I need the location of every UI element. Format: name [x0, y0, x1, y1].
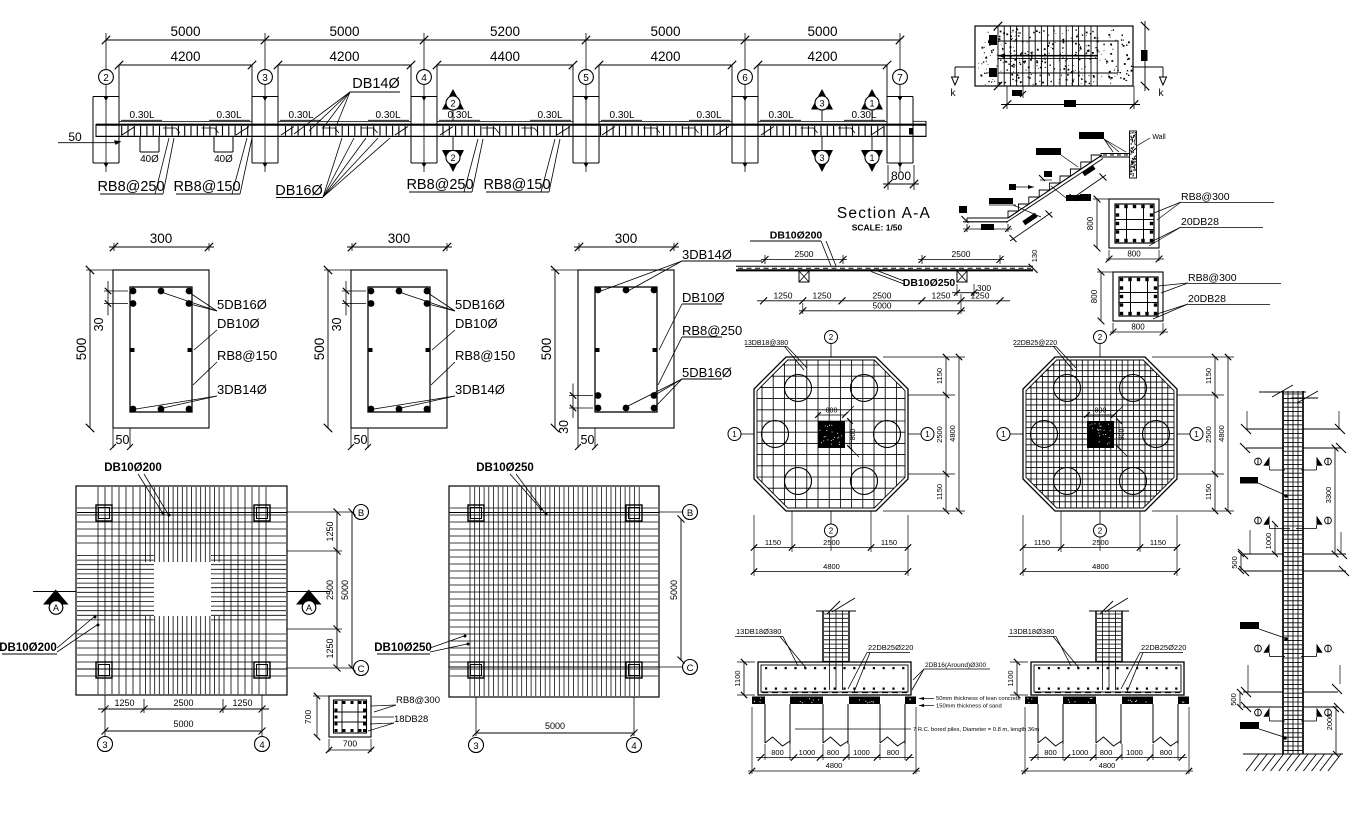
svg-text:RB8@250: RB8@250 — [97, 179, 164, 195]
svg-text:DB14Ø: DB14Ø — [352, 76, 400, 92]
svg-text:300: 300 — [150, 231, 173, 246]
octagonal pile cap 13DB18@380: bottom dimension 1150/2500/1150 — [751, 511, 911, 576]
stair section: top landing slab with rebar dashes — [1096, 154, 1130, 158]
octagonal pile cap 22DB25@220: column 800 dimensions — [1084, 406, 1128, 457]
stair plan: right dimension line — [1141, 21, 1149, 91]
octagonal pile cap 13DB18@380: pile circles — [762, 375, 901, 495]
svg-text:1100: 1100 — [733, 670, 742, 686]
octagonal pile cap 13DB18@380: inner octagon outline — [757, 360, 905, 508]
svg-text:B: B — [687, 508, 693, 519]
column elevation: level 3 beam stubs — [1241, 665, 1344, 713]
column section 700: 700 bottom dimension — [326, 739, 374, 754]
svg-text:800: 800 — [1131, 323, 1145, 332]
svg-text:DB10Ø250: DB10Ø250 — [476, 462, 534, 474]
svg-text:800: 800 — [1090, 289, 1099, 303]
svg-text:RB8@250: RB8@250 — [406, 177, 473, 193]
stair plan: k-k section line left — [951, 67, 976, 99]
svg-text:2: 2 — [1098, 527, 1103, 536]
svg-text:1: 1 — [869, 153, 874, 163]
stair section: wall with hatch — [1130, 131, 1167, 178]
svg-text:50: 50 — [354, 433, 368, 447]
octagonal pile cap 22DB25@220: grid bubble 1 left — [997, 428, 1023, 441]
svg-text:2500: 2500 — [952, 249, 971, 259]
svg-text:DB10Ø: DB10Ø — [217, 316, 260, 331]
pile cap section left: label 2DB16(Around)@300 — [912, 662, 990, 690]
octagonal pile cap 13DB18@380: outer octagon outline — [754, 357, 908, 511]
pile cap section right: bored piles with break marks — [1038, 704, 1178, 746]
svg-text:300: 300 — [615, 231, 638, 246]
stair plan: flight edge lines and landing boundary — [994, 22, 1118, 90]
svg-text:4800: 4800 — [1099, 761, 1116, 770]
column elevation: ground line with hatch — [1243, 754, 1343, 771]
svg-text:1000: 1000 — [799, 748, 816, 757]
octagonal pile cap 13DB18@380: grid bubble 1 left — [728, 428, 754, 441]
svg-text:SCALE: 1/50: SCALE: 1/50 — [852, 223, 903, 233]
column elevation: lower lap flags — [1255, 708, 1332, 721]
svg-text:1150: 1150 — [765, 538, 781, 547]
beam section 3: 30 bar spacing dimension — [557, 384, 593, 434]
octagonal pile cap 22DB25@220: inner octagon outline — [1026, 360, 1174, 508]
svg-text:4: 4 — [259, 740, 264, 751]
beam section 1: label DB10Ø — [194, 316, 260, 350]
svg-text:2500: 2500 — [795, 249, 814, 259]
beam section 3: 300 width dimension — [574, 231, 679, 251]
svg-text:5DB16Ø: 5DB16Ø — [682, 365, 732, 380]
svg-text:1000: 1000 — [1264, 533, 1273, 550]
column elevation: 500 dimension level 2 — [1230, 551, 1244, 574]
stair section: bottom landing slab — [959, 206, 1008, 223]
pile cap section right: 1100 left dimension — [1006, 659, 1028, 698]
svg-text:4800: 4800 — [948, 425, 957, 442]
svg-text:1: 1 — [732, 430, 737, 439]
svg-text:1: 1 — [1194, 430, 1199, 439]
beam section 2: 30 bar spacing dimension — [330, 281, 366, 331]
svg-text:800: 800 — [891, 169, 911, 183]
svg-text:0.30L: 0.30L — [375, 110, 400, 121]
pile cap section right: lean concrete / sand strip — [1025, 697, 1189, 705]
section A-A: 300 dimension at right x-box — [952, 283, 991, 296]
column elevation: 3300 dimension — [1324, 445, 1338, 558]
pile cap section left: label 22DB25@220 — [848, 643, 913, 692]
svg-text:1150: 1150 — [881, 538, 897, 547]
pile cap section right: label 22DB25@220 — [1121, 643, 1186, 692]
svg-text:RB8@150: RB8@150 — [455, 348, 515, 363]
footing plan 1: outer outline — [76, 486, 287, 695]
octagonal pile cap 22DB25@220: column black square — [1087, 421, 1114, 448]
column section 800 lower: label RB8@300 — [1158, 272, 1281, 293]
stray annotation blob left of upper column section — [1080, 194, 1091, 201]
footing plan 1: section arrow A left — [33, 590, 76, 615]
section A-A: label DB10@200 with leader — [750, 230, 836, 267]
svg-text:Section A-A: Section A-A — [837, 205, 931, 222]
beam section 2: 500 height dimension — [312, 266, 353, 432]
pile cap section left: cap rebar dots — [765, 667, 904, 690]
svg-text:5200: 5200 — [490, 24, 520, 39]
beam elevation: label RB8@250 first span — [97, 138, 174, 195]
svg-text:3: 3 — [819, 153, 824, 163]
svg-text:22DB25Ø220: 22DB25Ø220 — [868, 643, 913, 652]
svg-text:800: 800 — [827, 748, 840, 757]
octagonal pile cap 22DB25@220: grid bubble 2 top — [1094, 331, 1107, 358]
stair plan: outer slab outline — [975, 26, 1133, 86]
column elevation: main column with rebar ladder — [1283, 391, 1303, 754]
svg-text:1: 1 — [1001, 430, 1006, 439]
stair plan: k-k section line right — [1133, 67, 1167, 99]
column elevation: level 2 beam stubs — [1238, 530, 1349, 576]
svg-text:1250: 1250 — [813, 291, 832, 301]
column section 700: 700 left dimension — [303, 693, 331, 740]
svg-text:0.30L: 0.30L — [129, 110, 154, 121]
octagonal pile cap 22DB25@220: grid bubble 1 right — [1177, 428, 1203, 441]
svg-text:1250: 1250 — [971, 291, 990, 301]
section A-A: top dimension 2500 right — [918, 249, 1004, 264]
svg-text:4200: 4200 — [650, 49, 680, 64]
stair section: bottom landing dimension — [963, 224, 1012, 232]
svg-text:13DB18Ø380: 13DB18Ø380 — [1009, 627, 1054, 636]
svg-text:DB10Ø250: DB10Ø250 — [374, 642, 432, 654]
footing plan 1: grid bubble 3 — [98, 737, 113, 752]
column section 700: label 18DB28 — [368, 714, 428, 731]
svg-text:0.30L: 0.30L — [216, 110, 241, 121]
svg-text:4200: 4200 — [807, 49, 837, 64]
column section 800 upper: outline — [1109, 199, 1159, 248]
svg-text:A: A — [306, 603, 312, 613]
svg-text:130: 130 — [1030, 250, 1039, 263]
pile cap section left: cap outline — [758, 662, 911, 695]
octagonal pile cap 22DB25@220: pile circles — [1031, 375, 1170, 495]
column elevation: level 1 beam stubs — [1240, 411, 1346, 453]
svg-text:DB10Ø: DB10Ø — [682, 290, 725, 305]
svg-text:1000: 1000 — [853, 748, 870, 757]
pile cap section left: lean concrete / sand strip — [752, 697, 916, 705]
pile cap section left: bottom dimensions 800/1000/800/1000/800 — [756, 744, 914, 761]
svg-text:30: 30 — [92, 317, 106, 331]
beam section 1: 30 bar spacing dimension — [92, 281, 128, 331]
stair plan: concrete speckle texture — [978, 29, 1132, 85]
svg-text:50: 50 — [68, 130, 82, 144]
svg-text:700: 700 — [343, 739, 357, 749]
svg-text:0.30L: 0.30L — [609, 110, 634, 121]
pile cap section right: bottom dimension 4800 — [1021, 707, 1193, 774]
beam section 3: label DB10Ø — [659, 290, 725, 350]
pile cap section left: bored piles with break marks — [765, 704, 905, 746]
svg-text:1100: 1100 — [1006, 670, 1015, 686]
footing plan 1: vertical rebar lines outer zones — [98, 487, 266, 694]
svg-text:1: 1 — [869, 99, 874, 109]
beam elevation: label RB8@150 fourth span — [483, 139, 560, 193]
footing plan 1: grid bubble 4 — [255, 737, 270, 752]
svg-text:3: 3 — [473, 741, 478, 752]
octagonal pile cap 13DB18@380: rebar grid — [754, 357, 908, 511]
footing plan 2: label DB10@250 left with leaders — [374, 635, 469, 655]
beam section 3: label 3DB14Ø — [601, 247, 762, 291]
beam elevation: top-bar splice hook marks at midspans — [163, 128, 855, 133]
svg-text:C: C — [358, 664, 365, 675]
footing plan 1: bottom dimension 5000 — [102, 719, 266, 735]
stair plan: small black annotation blobs — [989, 35, 997, 45]
footing plan 2: horizontal rebar lines — [450, 508, 658, 676]
section A-A: left beam x-box — [799, 271, 809, 282]
svg-text:3DB14Ø: 3DB14Ø — [217, 382, 267, 397]
svg-text:20DB28: 20DB28 — [1181, 216, 1219, 228]
beam elevation: 50 offset annotation at left end — [58, 130, 122, 145]
octagonal pile cap 22DB25@220: rebar grid — [1023, 357, 1177, 511]
svg-text:40Ø: 40Ø — [140, 154, 159, 165]
pile cap section right: dashed bottom rebar line — [1035, 691, 1180, 693]
beam section 3: longitudinal bars — [595, 287, 658, 412]
svg-text:DB10Ø200: DB10Ø200 — [770, 230, 823, 242]
beam elevation: top dimension line 5000/5200 row — [102, 24, 904, 47]
svg-text:4800: 4800 — [823, 562, 840, 571]
svg-text:1000: 1000 — [1126, 748, 1143, 757]
svg-text:DB10Ø200: DB10Ø200 — [104, 462, 162, 474]
svg-text:50mm thickness of lean concret: 50mm thickness of lean concrete — [936, 696, 1021, 702]
octagonal pile cap 13DB18@380: bottom dimension 4800 — [751, 562, 911, 575]
stair section: flight soffit double line — [1006, 155, 1103, 223]
beam section 3: stirrup — [595, 287, 657, 412]
svg-text:2500: 2500 — [873, 291, 892, 301]
column section 800 upper: 800 bottom dimension — [1106, 250, 1164, 263]
svg-text:5000: 5000 — [329, 24, 359, 39]
svg-text:0.30L: 0.30L — [696, 110, 721, 121]
section A-A: top dimension 2500 left — [761, 249, 847, 264]
octagonal pile cap 22DB25@220: right dimension 1150/2500/1150 — [1152, 354, 1234, 514]
beam section 2: label 5DB16Ø — [399, 292, 505, 312]
footing plan 1: grid bubble B with extension — [287, 505, 369, 520]
svg-text:0.30L: 0.30L — [851, 110, 876, 121]
svg-text:4800: 4800 — [826, 761, 843, 770]
svg-text:13DB18Ø380: 13DB18Ø380 — [736, 627, 781, 636]
svg-text:DB10Ø200: DB10Ø200 — [0, 642, 57, 654]
svg-text:2500: 2500 — [1092, 538, 1109, 547]
svg-text:1250: 1250 — [325, 638, 335, 658]
svg-text:RB8@300: RB8@300 — [1181, 191, 1230, 203]
svg-text:1150: 1150 — [1204, 368, 1213, 384]
svg-text:4200: 4200 — [329, 49, 359, 64]
svg-text:800: 800 — [1119, 429, 1126, 441]
svg-text:40Ø: 40Ø — [214, 154, 233, 165]
column section 800 lower: stirrups and ties — [1119, 277, 1158, 316]
svg-text:7 R.C. bored piles, Diameter =: 7 R.C. bored piles, Diameter = 0.8 m, le… — [913, 727, 1039, 733]
svg-text:300: 300 — [388, 231, 411, 246]
svg-text:500: 500 — [74, 338, 89, 361]
column section 700: outline — [329, 696, 371, 737]
column section 800 lower: outline — [1113, 272, 1163, 321]
svg-text:18DB28: 18DB28 — [394, 714, 428, 725]
footing plan 2: right dimension 5000 — [669, 516, 685, 664]
svg-text:50: 50 — [581, 433, 595, 447]
svg-text:800: 800 — [1095, 408, 1107, 415]
footing plan 2: grid bubble C with extension — [659, 660, 698, 675]
footing plan 2: vertical rebar lines — [470, 487, 639, 696]
column elevation: mid lap flags — [1255, 644, 1332, 657]
column elevation: level 1 lap flags — [1255, 457, 1332, 470]
svg-text:1250: 1250 — [114, 698, 134, 708]
footing plan 1: column axis lines — [77, 512, 287, 514]
svg-text:2000: 2000 — [1325, 714, 1334, 731]
svg-text:800: 800 — [826, 408, 838, 415]
beam section 1: concrete outline — [113, 270, 209, 428]
footing plan 1: dense vertical rebar above and below hole — [146, 487, 220, 694]
octagonal pile cap 22DB25@220: bottom dimension 4800 — [1020, 562, 1180, 575]
svg-text:1250: 1250 — [325, 521, 335, 541]
beam section 2: 50 cover dimension — [348, 428, 371, 450]
svg-text:1: 1 — [925, 430, 930, 439]
beam section 3: 500 height dimension — [539, 266, 580, 432]
beam section 3: concrete outline — [578, 270, 674, 428]
svg-text:3: 3 — [819, 99, 824, 109]
svg-text:5000: 5000 — [340, 580, 350, 600]
svg-text:3DB14Ø: 3DB14Ø — [682, 247, 732, 262]
svg-text:22DB25@220: 22DB25@220 — [1013, 340, 1057, 347]
pile cap section right: bottom dimensions 800/1000/800/1000/800 — [1029, 744, 1187, 761]
beam section 1: 300 width dimension — [109, 231, 214, 251]
svg-text:13DB18@380: 13DB18@380 — [744, 340, 788, 347]
pile cap section left: note 50mm lean concrete — [919, 696, 1021, 702]
column section 700: rebar dots — [335, 701, 367, 732]
svg-text:2: 2 — [450, 99, 455, 109]
svg-text:30: 30 — [557, 420, 571, 434]
beam section 1: longitudinal bars — [130, 288, 193, 413]
svg-text:Wall: Wall — [1152, 134, 1166, 141]
svg-text:1150: 1150 — [935, 484, 944, 500]
pile cap section left: note 150mm sand — [919, 704, 1002, 710]
beam elevation: label DB16dia with leader fan — [275, 138, 390, 199]
svg-text:1150: 1150 — [1150, 538, 1166, 547]
beam elevation: 4200/4400 dimension row and span boxes — [115, 49, 891, 121]
beam section 1: label 3DB14Ø — [136, 382, 267, 409]
svg-text:4: 4 — [421, 73, 427, 84]
beam section 3: label RB8@250 — [658, 323, 742, 385]
footing plan 1: bottom dimension 1250/2500/1250 — [98, 695, 269, 736]
stair section: slope dimension lower flight — [1010, 211, 1053, 243]
svg-text:1150: 1150 — [1034, 538, 1050, 547]
svg-text:2500: 2500 — [935, 426, 944, 443]
footing plan 2: bottom dimension 5000 with bubbles 3 and 4 — [469, 697, 642, 753]
svg-text:800: 800 — [1127, 250, 1141, 259]
column section 800 upper: label 20DB28 — [1149, 216, 1263, 246]
footing plan 2: label DB10@250 top with leaders — [476, 462, 547, 516]
beam section 1: label RB8@150 — [193, 348, 277, 385]
svg-text:2500: 2500 — [173, 698, 193, 708]
svg-text:2: 2 — [829, 527, 834, 536]
section A-A: bottom dimension 5000 — [799, 294, 965, 314]
column elevation: annotation blob mid — [1240, 622, 1288, 641]
svg-text:500: 500 — [1229, 693, 1238, 706]
svg-text:RB8@150: RB8@150 — [483, 177, 550, 193]
svg-text:0.30L: 0.30L — [768, 110, 793, 121]
beam section 2: concrete outline — [351, 270, 447, 428]
svg-text:1250: 1250 — [774, 291, 793, 301]
stair section: second label blob — [1036, 148, 1078, 167]
octagonal pile cap 13DB18@380: grid bubble 1 right — [908, 428, 934, 441]
pile cap section left: 1100 left dimension — [733, 659, 755, 698]
column section 800 lower: 800 bottom dimension — [1110, 323, 1168, 336]
svg-text:5000: 5000 — [650, 24, 680, 39]
octagonal pile cap 13DB18@380: column black square — [818, 421, 845, 448]
octagonal pile cap 22DB25@220: grid bubble 2 bottom — [1094, 511, 1107, 551]
beam elevation: label RB8@150 first span — [173, 138, 252, 195]
column elevation: top break symbol — [1259, 385, 1318, 403]
beam section 3: label 5DB16Ø — [626, 365, 732, 407]
octagonal pile cap 13DB18@380: right dimension 1150/2500/1150 — [883, 354, 965, 514]
pile cap section left: label 13DB18@380 — [735, 627, 806, 668]
svg-text:2: 2 — [1098, 333, 1103, 342]
svg-text:1000: 1000 — [1072, 748, 1089, 757]
svg-text:50: 50 — [116, 433, 130, 447]
beam elevation: label DB14dia with leaders — [294, 76, 400, 134]
svg-text:RB8@150: RB8@150 — [217, 348, 277, 363]
footing plan 2: corner column squares — [468, 505, 484, 521]
column section 700: stirrups and ties — [334, 700, 368, 733]
footing plan 2: outer outline — [449, 486, 659, 697]
column section 800 upper: rebar dots — [1116, 205, 1153, 242]
svg-text:0.30L: 0.30L — [288, 110, 313, 121]
svg-text:5000: 5000 — [170, 24, 200, 39]
pile cap section right: label 13DB18@380 — [1008, 627, 1079, 668]
column section 800 lower: rebar dots — [1120, 278, 1157, 315]
svg-text:2DB16(Around)Ø300: 2DB16(Around)Ø300 — [925, 662, 986, 669]
svg-text:0.30L: 0.30L — [447, 110, 472, 121]
pile cap section left: note 7 RC bored piles — [795, 727, 1039, 733]
svg-text:A: A — [53, 603, 59, 613]
section A-A: right beam x-box — [957, 271, 967, 282]
svg-text:1250: 1250 — [932, 291, 951, 301]
beam elevation: continuous slab/beam band — [96, 121, 926, 137]
beam elevation: drop stubs with 40dia labels in first span — [140, 137, 233, 165]
footing plan 1: corner column squares — [96, 505, 112, 521]
svg-text:30: 30 — [330, 317, 344, 331]
svg-text:150mm thickness of sand: 150mm thickness of sand — [936, 704, 1002, 710]
svg-text:2: 2 — [829, 333, 834, 342]
svg-text:4: 4 — [631, 741, 636, 752]
column section 800 lower: label 20DB28 — [1153, 293, 1270, 319]
svg-text:5DB16Ø: 5DB16Ø — [455, 297, 505, 312]
svg-text:2500: 2500 — [325, 580, 335, 600]
svg-text:5: 5 — [583, 73, 589, 84]
svg-text:7: 7 — [897, 73, 903, 84]
svg-text:4800: 4800 — [1092, 562, 1109, 571]
beam elevation: 0.30L labels with underlines — [121, 110, 885, 121]
octagonal pile cap 22DB25@220: bottom dimension 1150/2500/1150 — [1020, 511, 1180, 576]
stair section: slope dimension upper flight — [1070, 165, 1107, 201]
svg-text:RB8@300: RB8@300 — [1188, 272, 1237, 284]
svg-text:3DB14Ø: 3DB14Ø — [455, 382, 505, 397]
svg-text:800: 800 — [887, 748, 900, 757]
beam section 3: 50 cover dimension — [575, 428, 598, 450]
beam section 2: label 3DB14Ø — [374, 382, 505, 409]
column elevation: 1000 dimension — [1264, 521, 1278, 557]
section A-A: bottom dimension row 1250/1250/2500/1250/1250 — [757, 291, 1010, 305]
beam section 1: 500 height dimension — [74, 266, 115, 432]
beam elevation: 800 dimension at right end — [883, 128, 919, 190]
footing plan 2: grid bubble B with extension — [659, 505, 698, 520]
stair section: sloped flight steps — [1008, 155, 1102, 218]
svg-text:500: 500 — [312, 338, 327, 361]
pile cap section right: cap rebar dots — [1038, 667, 1177, 690]
svg-text:DB16Ø: DB16Ø — [275, 183, 323, 199]
column section 800 upper: label RB8@300 — [1154, 191, 1274, 220]
column section 800 upper: stirrups and ties — [1115, 204, 1154, 243]
beam section 2: label DB10Ø — [432, 316, 498, 350]
footing plan 1: right dimension 5000 — [340, 509, 356, 672]
octagonal pile cap 13DB18@380: grid bubble 2 bottom — [825, 511, 838, 551]
beam elevation: stirrup hatch ticks in beam band — [122, 126, 884, 136]
svg-text:2500: 2500 — [823, 538, 840, 547]
octagonal pile cap 22DB25@220: outer octagon outline — [1023, 357, 1177, 511]
octagonal pile cap 22DB25@220: right dimension 4800 — [1217, 354, 1231, 514]
beam section 1: stirrup — [130, 287, 192, 412]
